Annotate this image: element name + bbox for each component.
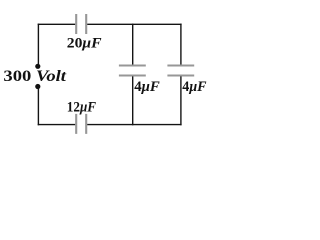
wire bottom-right segment — [87, 124, 182, 126]
wire left lower — [37, 87, 39, 126]
wire top-right segment — [87, 23, 182, 25]
node top terminal — [35, 64, 40, 69]
wire left upper — [37, 24, 39, 67]
capacitor C3 4uF plates — [119, 66, 146, 76]
node bottom terminal — [35, 84, 40, 89]
svg-text:20μF: 20μF — [67, 36, 102, 52]
svg-text:4μF: 4μF — [134, 79, 160, 95]
svg-text:4μF: 4μF — [182, 79, 206, 95]
capacitor C4 4uF plates — [167, 66, 194, 76]
capacitor C2 12uF plates — [76, 114, 86, 134]
wire bottom-left segment — [38, 124, 76, 126]
wire middle branch lower — [132, 76, 134, 125]
wire top-left segment — [38, 23, 76, 25]
wire middle branch upper — [132, 24, 134, 65]
wire right branch upper — [180, 24, 182, 65]
capacitor C1 20uF plates — [76, 14, 86, 34]
svg-text:300 Volt: 300 Volt — [3, 68, 66, 85]
wire right branch lower — [180, 76, 182, 125]
svg-text:12μF: 12μF — [67, 100, 96, 116]
